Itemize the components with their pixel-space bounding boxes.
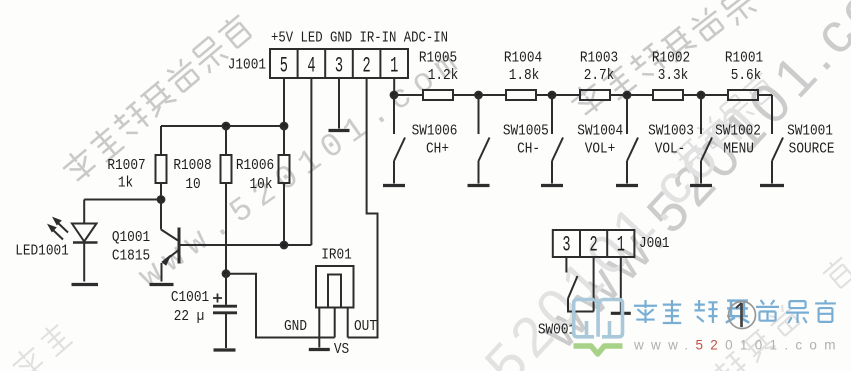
switch SW1002	[701, 95, 712, 184]
svg-text:SW1004: SW1004	[577, 123, 623, 140]
svg-text:R1008: R1008	[173, 157, 211, 174]
resistor R1005	[423, 90, 453, 100]
svg-text:5.6k: 5.6k	[731, 67, 762, 84]
svg-text:10k: 10k	[250, 176, 273, 193]
svg-text:R1007: R1007	[107, 157, 145, 174]
watermark CJK partial bottom-right	[711, 349, 751, 371]
wire C1001 node to IR01 GND pin	[226, 274, 335, 338]
node dot rail pin5	[281, 123, 288, 130]
svg-text:1k: 1k	[118, 175, 133, 192]
svg-text:LED1001: LED1001	[15, 243, 69, 260]
svg-text:+5V LED GND IR-IN ADC-IN: +5V LED GND IR-IN ADC-IN	[271, 30, 448, 47]
ground SW1005	[468, 184, 490, 187]
svg-text:C1815: C1815	[112, 248, 150, 265]
resistor R1002	[653, 90, 683, 100]
node dot bus3	[549, 92, 556, 99]
ground SW1003	[616, 184, 638, 187]
LED arrows	[49, 218, 69, 240]
svg-text:1.2k: 1.2k	[428, 67, 459, 84]
ground J001 pin1	[611, 312, 631, 315]
connector J1001	[270, 49, 408, 78]
logo book icon	[574, 300, 623, 337]
connector J001	[553, 230, 635, 257]
ground SW1001	[760, 184, 784, 187]
svg-text:3.3k: 3.3k	[658, 67, 689, 84]
svg-text:SW001: SW001	[538, 322, 576, 339]
resistor R1006	[279, 126, 290, 245]
svg-text:22 µ: 22 µ	[174, 308, 205, 325]
wire J001 pin1	[620, 257, 622, 315]
svg-text:CH-: CH-	[517, 141, 540, 158]
switch SW1003	[627, 95, 638, 184]
watermark CJK line top-left	[58, 12, 254, 187]
watermark CJK partial mid-right	[673, 138, 709, 174]
svg-text:5: 5	[280, 55, 288, 79]
node dot R1007 bottom	[158, 196, 165, 203]
ground SW1004	[541, 184, 563, 187]
wire J001 pin3	[565, 257, 567, 273]
resistor R1001	[728, 90, 758, 100]
switch SW1005	[479, 95, 490, 184]
logo CJK text blue	[634, 300, 836, 323]
svg-text:SW1001: SW1001	[787, 123, 833, 140]
node dot bus4	[624, 92, 631, 99]
switch SW1004	[552, 95, 563, 184]
svg-text:J1001: J1001	[228, 57, 266, 74]
wire J001 pin2	[593, 257, 595, 312]
IR receiver IR01	[316, 266, 354, 348]
wire pin2 to IR01 OUT	[348, 78, 378, 338]
wire resistor chain bus	[394, 95, 772, 134]
svg-text:SW1002: SW1002	[715, 123, 761, 140]
svg-text:C1001: C1001	[171, 289, 209, 306]
svg-text:Q1001: Q1001	[112, 229, 150, 246]
svg-text:www.520101.com: www.520101.com	[633, 338, 843, 353]
label pin numbers J001	[562, 234, 625, 258]
svg-text:4: 4	[307, 55, 315, 79]
wire +5V rail	[161, 125, 284, 127]
svg-text:VOL-: VOL-	[655, 141, 686, 158]
wire LED to collector node	[84, 199, 161, 201]
svg-text:SW1006: SW1006	[412, 123, 458, 140]
switch SW1006	[394, 95, 405, 184]
svg-text:VS: VS	[334, 341, 349, 358]
svg-text:2: 2	[363, 55, 371, 79]
wire base to pin4	[180, 244, 311, 246]
switch SW1001	[772, 95, 783, 184]
svg-text:SW1005: SW1005	[503, 123, 549, 140]
ground pin3	[329, 129, 350, 132]
resistor R1007	[156, 126, 167, 200]
svg-text:2.7k: 2.7k	[584, 67, 615, 84]
logo green swoosh	[574, 346, 623, 354]
svg-text:R1006: R1006	[236, 157, 274, 174]
node dot bus1	[391, 92, 398, 99]
svg-text:VOL+: VOL+	[585, 141, 616, 158]
svg-text:R1004: R1004	[504, 50, 542, 67]
ground Q1001 emitter	[150, 283, 174, 286]
watermark CJK line top-right	[567, 0, 759, 120]
svg-text:SW1003: SW1003	[648, 123, 694, 140]
ground SW1006	[383, 184, 405, 187]
node dot R1006 base	[281, 242, 288, 249]
svg-text:IR01: IR01	[321, 247, 352, 264]
ground C1001	[214, 348, 236, 351]
node dot bus2	[475, 92, 482, 99]
capacitor C1001	[213, 274, 237, 348]
watermark CJK partial bottom-left	[8, 342, 48, 371]
switch SW001	[568, 276, 594, 312]
ground LED1001	[72, 283, 99, 286]
node dot C1001 top	[223, 270, 230, 277]
svg-text:3: 3	[335, 55, 343, 79]
svg-text:2: 2	[590, 234, 598, 258]
label pin numbers J1001	[280, 55, 399, 79]
resistor R1003	[580, 90, 610, 100]
ground SW1002	[690, 184, 712, 187]
svg-text:R1005: R1005	[419, 50, 457, 67]
ground IR01 pin1	[309, 348, 330, 351]
svg-text:J001: J001	[639, 235, 670, 252]
svg-text:R1002: R1002	[652, 50, 690, 67]
resistor R1004	[506, 90, 536, 100]
svg-text:MENU: MENU	[723, 141, 754, 158]
node dot bus5	[698, 92, 705, 99]
svg-text:GND: GND	[284, 318, 307, 335]
svg-text:SOURCE: SOURCE	[789, 141, 835, 158]
logo circled 1 mark	[729, 302, 756, 329]
svg-text:OUT: OUT	[354, 318, 377, 335]
svg-text:R1001: R1001	[725, 50, 763, 67]
svg-text:1.8k: 1.8k	[509, 67, 540, 84]
svg-text:R1003: R1003	[580, 50, 618, 67]
svg-text:CH+: CH+	[426, 141, 449, 158]
wire pin3	[338, 78, 340, 129]
svg-text:10: 10	[185, 176, 200, 193]
resistor R1008	[221, 126, 232, 274]
LED LED1001	[72, 200, 98, 282]
wire pin1	[393, 78, 395, 95]
svg-text:1: 1	[617, 234, 625, 258]
svg-text:1: 1	[390, 55, 398, 79]
transistor Q1001	[161, 200, 179, 282]
node dot rail R1008	[223, 123, 230, 130]
wire pin5 to +5V rail	[283, 78, 285, 126]
wire pin4	[310, 78, 312, 245]
svg-text:3: 3	[562, 234, 570, 258]
